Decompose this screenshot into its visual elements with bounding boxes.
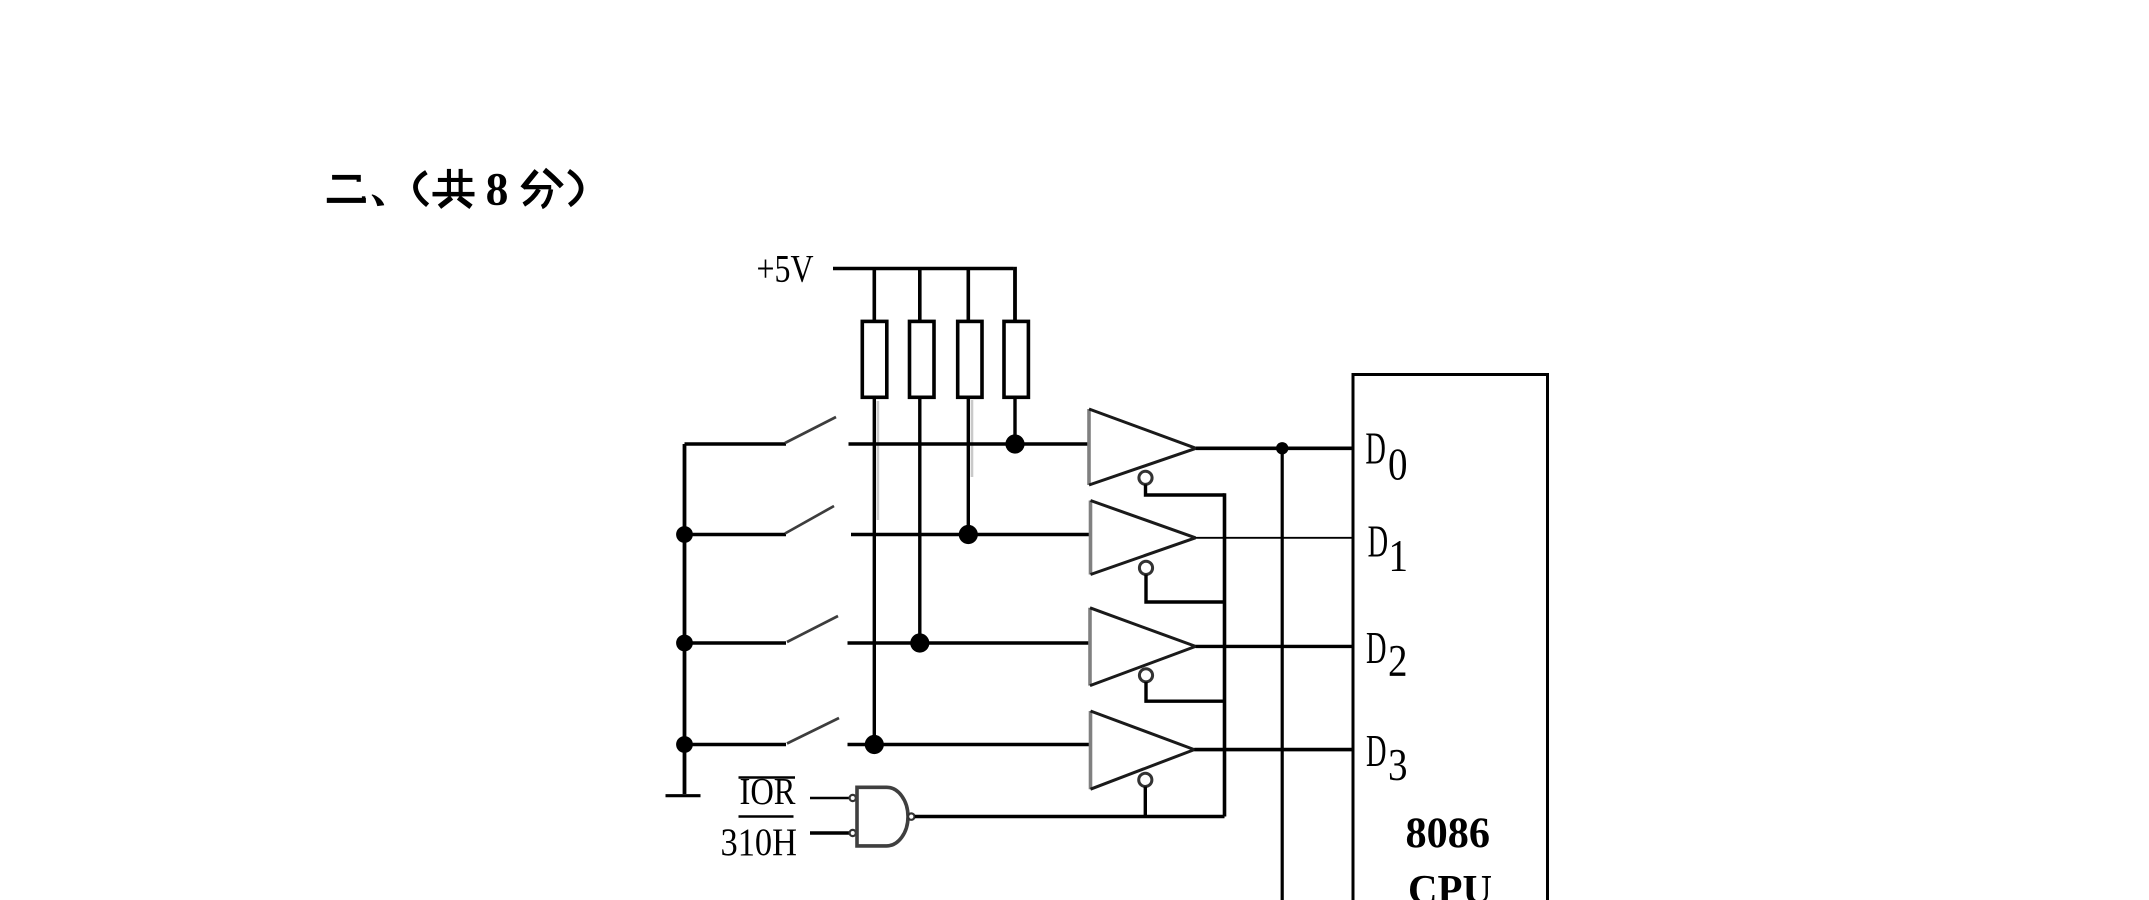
row3 switch left wire xyxy=(685,641,787,645)
junction dot D0 xyxy=(1276,442,1288,454)
glyph 二 xyxy=(327,175,366,203)
glyph 共 xyxy=(433,169,475,207)
junction dot row4/R1 xyxy=(865,735,884,754)
svg-text:3: 3 xyxy=(1388,740,1408,790)
pin label D0 xyxy=(1365,424,1407,490)
junction dot row2/R3 xyxy=(959,525,978,544)
resistor R3 xyxy=(958,321,982,397)
wire U4 enable down to nand output xyxy=(1144,787,1147,817)
wire D0 node down to bottom edge xyxy=(1281,448,1284,900)
title 二、（共 8 分） xyxy=(327,164,581,216)
wire 310H to nand input xyxy=(810,831,849,835)
nand U5 body xyxy=(857,787,908,846)
wire stub to R4 xyxy=(1013,267,1017,322)
buffer U4 triangle xyxy=(1091,711,1195,789)
row2 wire to buffer2 xyxy=(851,533,1091,537)
buffer U4 enable bubble xyxy=(1139,773,1152,786)
switch S4 blade xyxy=(787,718,839,744)
310H overline xyxy=(739,815,794,818)
row1 switch left wire xyxy=(685,442,787,446)
svg-text:D: D xyxy=(1366,623,1387,673)
wire U1 enable to bus xyxy=(1146,484,1225,495)
scan shadow line under R1 xyxy=(877,401,880,520)
row2 switch left wire xyxy=(685,533,787,537)
buffer U1 triangle xyxy=(1089,409,1196,485)
wire nand output to enable bus xyxy=(915,815,1225,818)
glyph ） xyxy=(569,171,582,205)
buffer U1 enable bubble xyxy=(1139,471,1152,484)
buffer U3 enable bubble xyxy=(1139,669,1152,682)
svg-text:CPU: CPU xyxy=(1408,866,1492,900)
IOR overline xyxy=(739,776,796,779)
buffer U2 enable bubble xyxy=(1139,561,1152,574)
buffer U2 triangle xyxy=(1091,501,1196,575)
nand U5 input bubble A xyxy=(850,795,856,801)
svg-text:+5V: +5V xyxy=(757,247,814,290)
+5V bus wire xyxy=(833,267,1013,270)
wire IOR to nand input xyxy=(810,797,849,799)
svg-text:310H: 310H xyxy=(721,820,798,864)
nand U5 output bubble xyxy=(908,813,914,819)
svg-text:2: 2 xyxy=(1388,636,1408,686)
wire stub to R3 xyxy=(966,269,970,322)
svg-text:D: D xyxy=(1368,517,1389,567)
resistor R2 xyxy=(910,321,935,397)
pin label D3 xyxy=(1366,726,1408,790)
resistor R1 xyxy=(862,321,887,397)
enable bus vertical xyxy=(1223,493,1227,816)
wire U3 enable to bus xyxy=(1146,682,1225,701)
svg-text:1: 1 xyxy=(1389,531,1409,581)
wire buffer3 output to CPU D2 xyxy=(1196,645,1353,648)
glyph （ xyxy=(415,172,427,205)
wire U2 enable to bus xyxy=(1146,575,1225,603)
wire R1 tail down to row4 xyxy=(873,397,876,744)
junction dot rail/row4 xyxy=(676,736,693,753)
glyph 分 xyxy=(523,170,562,207)
svg-text:8086: 8086 xyxy=(1406,810,1491,857)
wire buffer2 output to CPU D1 xyxy=(1196,537,1354,539)
wire buffer1 output to CPU D0 xyxy=(1196,446,1353,450)
glyph 、 xyxy=(372,194,385,206)
wire buffer4 output to CPU D3 xyxy=(1194,748,1353,752)
wire R2 tail down to row3 xyxy=(918,397,921,643)
wire stub to R2 xyxy=(918,269,922,322)
junction dot rail/row2 xyxy=(676,526,693,543)
svg-text:0: 0 xyxy=(1388,440,1408,490)
switch S1 blade xyxy=(785,417,836,443)
buffer U3 triangle xyxy=(1090,608,1196,686)
svg-text:IOR: IOR xyxy=(740,771,797,813)
svg-text:8: 8 xyxy=(486,164,509,216)
ground xyxy=(666,794,701,797)
pin label D2 xyxy=(1366,623,1408,686)
junction dot row1/R4 xyxy=(1005,434,1024,453)
wire R3 tail down to row2 xyxy=(967,397,970,534)
switch S2 blade xyxy=(785,506,834,534)
row3 wire to buffer3 xyxy=(848,641,1091,645)
junction dot rail/row3 xyxy=(676,635,693,652)
junction dot row3/R2 xyxy=(910,633,929,652)
svg-text:D: D xyxy=(1366,726,1387,776)
CPU box 8086 xyxy=(1353,373,1548,900)
wire R4 tail down to row1 xyxy=(1013,397,1016,444)
switch S3 blade xyxy=(787,616,838,642)
row4 wire to buffer4 xyxy=(848,743,1092,747)
scan shadow line under R3 xyxy=(971,400,974,477)
pin label D1 xyxy=(1368,517,1408,581)
left rail wire xyxy=(683,444,687,794)
row4 switch left wire xyxy=(685,743,787,747)
resistor R4 xyxy=(1004,321,1028,397)
nand U5 input bubble B xyxy=(850,830,856,836)
row1 wire to buffer1 xyxy=(849,442,1091,446)
wire stub to R1 xyxy=(872,269,876,322)
svg-text:D: D xyxy=(1365,424,1386,474)
